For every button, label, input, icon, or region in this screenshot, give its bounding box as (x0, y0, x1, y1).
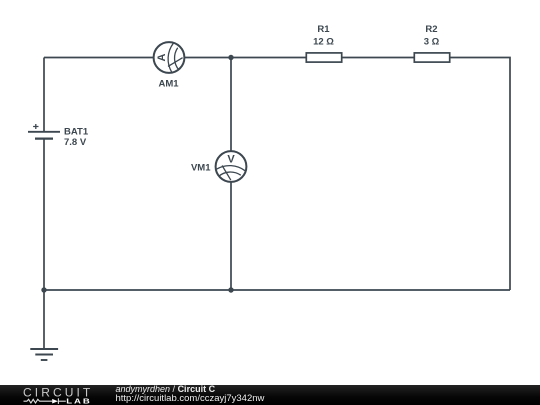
wire node A down to VM1 (230, 58, 232, 152)
CircuitLab logo (0, 385, 110, 405)
svg-text:R1: R1 (317, 24, 330, 35)
wire node A to R1 (231, 57, 306, 59)
ground (30, 349, 58, 360)
svg-text:VM1: VM1 (191, 163, 211, 174)
wire VM1 down to bottom rail (230, 182, 232, 291)
svg-text:7.8 V: 7.8 V (64, 137, 87, 148)
svg-text:R2: R2 (425, 24, 437, 35)
ammeter AM1 (154, 42, 185, 73)
svg-text:AM1: AM1 (158, 78, 179, 89)
svg-text:LAB: LAB (66, 396, 91, 405)
node A junction dot (top, AM1/VM1/R1) (228, 55, 233, 60)
wire R1 to R2 (343, 57, 414, 59)
wire left top battery to top rail (43, 58, 45, 132)
footer attribution bar (0, 385, 540, 405)
wire battery plus to AM1 (44, 57, 154, 59)
wire battery minus down to bottom node (43, 139, 45, 290)
svg-text:V: V (227, 154, 235, 166)
resistor R1 (306, 53, 341, 62)
wire AM1 to node A (185, 57, 232, 59)
svg-text:BAT1: BAT1 (64, 126, 89, 137)
wire bottom rail (44, 289, 510, 291)
node junction dot (bottom left, battery/ground/bottom rail) (41, 287, 46, 292)
wire R2 to right corner and down right side (451, 58, 511, 291)
wire bottom node to ground (43, 290, 45, 349)
battery BAT1 (28, 124, 60, 139)
resistor R2 (414, 53, 449, 62)
node junction dot (bottom, VM1/bottom rail) (228, 287, 233, 292)
svg-text:12 Ω: 12 Ω (313, 36, 334, 47)
svg-text:3 Ω: 3 Ω (424, 36, 440, 47)
svg-text:A: A (156, 53, 168, 61)
voltmeter VM1 (216, 151, 247, 182)
